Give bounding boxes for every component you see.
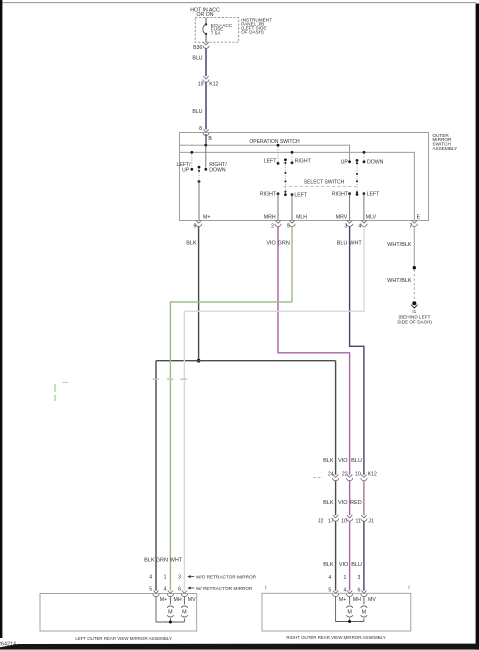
wire BLK to left mirror	[155, 361, 157, 591]
select contact RIGHT to MRH	[277, 192, 280, 195]
svg-text:MLH: MLH	[296, 215, 307, 221]
connector at right mirror MH	[347, 591, 353, 597]
svg-text:6: 6	[194, 224, 197, 230]
connector pin 7 at E	[411, 220, 417, 226]
svg-text:BLK: BLK	[144, 558, 155, 564]
wire VIO K12 to J2	[349, 481, 351, 516]
connector at right mirror MV	[361, 591, 367, 597]
pole vertical group (mechanical link)	[356, 159, 359, 162]
svg-text:2: 2	[271, 224, 274, 230]
bus line 2 (earth) to terminal E	[180, 152, 414, 220]
svg-text:B36: B36	[193, 45, 202, 51]
svg-text:SIDE OF DASH): SIDE OF DASH)	[397, 320, 432, 325]
svg-text:K12: K12	[209, 82, 218, 88]
svg-text:M: M	[168, 610, 173, 616]
svg-text:RIGHT OUTER REAR VIEW MIRROR A: RIGHT OUTER REAR VIEW MIRROR ASSEMBLY	[286, 635, 385, 640]
select contact RIGHT to MRV	[348, 192, 351, 195]
scan artifact green ticks	[153, 378, 187, 380]
svg-text:6: 6	[358, 587, 361, 593]
contact RIGHT/DOWN	[205, 145, 207, 167]
svg-text:19: 19	[198, 82, 204, 88]
wire BLK J2 to right mirror	[335, 521, 337, 590]
pole horizontal group (mechanical link)	[284, 158, 287, 161]
svg-text:RIGHT: RIGHT	[295, 158, 312, 164]
svg-text:E: E	[417, 215, 421, 221]
wire MV to motor left mirror	[183, 597, 185, 622]
page top scan edge line	[3, 2, 477, 4]
svg-text:DOWN: DOWN	[209, 168, 226, 174]
svg-text:M: M	[182, 610, 187, 616]
wire WHT/BLK from E pin 7	[413, 227, 415, 267]
wire BLK from M+ pin 6	[198, 227, 200, 361]
wire MH to motor right mirror	[349, 597, 351, 622]
svg-text:J1: J1	[368, 519, 374, 525]
wire M+ inside right mirror	[336, 597, 364, 622]
svg-text:MRH: MRH	[264, 215, 276, 221]
outer mirror switch assembly box U1	[180, 133, 429, 221]
svg-text:UP: UP	[341, 159, 349, 165]
svg-text:LEFT: LEFT	[294, 192, 308, 198]
connector at switch pin 8 / terminal B	[203, 129, 209, 135]
connector pin 3 at MRV	[347, 220, 353, 226]
wire MH to motor left mirror	[169, 597, 171, 622]
node splice BLK junction	[197, 359, 201, 363]
svg-text:BLU: BLU	[192, 55, 202, 61]
svg-text:VIO: VIO	[338, 500, 348, 506]
contact DOWN (vertical group) on bus 2	[363, 151, 366, 154]
wire GRN from MLH pin 5 to left mirror	[170, 227, 292, 591]
svg-text:5: 5	[149, 587, 152, 593]
svg-text:M: M	[347, 610, 352, 616]
wire BLK to right mirror K12	[335, 361, 337, 475]
wire WHT from MLV pin 4 to left mirror	[184, 227, 364, 591]
svg-text:BLU: BLU	[351, 562, 362, 568]
svg-text:OF DASH): OF DASH)	[241, 29, 264, 34]
wire BLK K12 to J2	[335, 481, 337, 516]
svg-text:1: 1	[164, 575, 167, 581]
svg-text:B: B	[208, 136, 212, 142]
svg-text:10: 10	[341, 519, 347, 525]
svg-text:4: 4	[149, 575, 152, 581]
motor M vertical left mirror	[181, 606, 187, 617]
svg-text:BLU: BLU	[351, 458, 362, 464]
svg-text:BLK: BLK	[323, 500, 334, 506]
node B on bus 1	[204, 144, 207, 147]
connector K12 pin 10	[361, 475, 367, 481]
svg-text:ASSEMBLY: ASSEMBLY	[432, 146, 458, 151]
svg-text:BLU: BLU	[192, 109, 202, 115]
connector at left mirror MV	[181, 591, 187, 597]
connector K12 pin 22	[347, 475, 353, 481]
svg-text:MH: MH	[174, 597, 182, 603]
connector at left mirror M+	[153, 591, 159, 597]
svg-text:17: 17	[328, 519, 334, 525]
svg-text:3: 3	[178, 575, 181, 581]
wire fuse to connector B36	[205, 34, 207, 42]
wire BLK horizontal run	[156, 360, 336, 362]
svg-text:6: 6	[178, 587, 181, 593]
svg-text:3: 3	[358, 575, 361, 581]
pole of M+ operation switch	[198, 166, 201, 169]
svg-text:W/ RETRACTOR MIRROR: W/ RETRACTOR MIRROR	[196, 586, 253, 591]
svg-text:VIO: VIO	[338, 458, 348, 464]
wire BLU B36 to K12	[205, 48, 207, 76]
annotation arrow W/ retractor	[189, 587, 194, 589]
svg-text:10: 10	[355, 472, 361, 478]
node junction left mirror common	[169, 621, 172, 624]
svg-text:4: 4	[164, 587, 167, 593]
page bottom black scan bar	[0, 644, 479, 650]
svg-text:BLK: BLK	[323, 562, 334, 568]
svg-text:M+: M+	[160, 597, 167, 603]
connector at left mirror MH	[167, 591, 173, 597]
svg-text:W/O RETRACTOR MIRROR: W/O RETRACTOR MIRROR	[196, 574, 257, 579]
svg-text:SELECT SWITCH: SELECT SWITCH	[304, 179, 345, 185]
svg-text:5: 5	[287, 224, 290, 230]
svg-text:J2: J2	[318, 519, 324, 525]
svg-text:4: 4	[328, 575, 331, 581]
svg-text:I1: I1	[412, 309, 416, 314]
wire pole to terminal M+	[198, 182, 200, 221]
bus line 1 (battery) to UP contact	[180, 145, 350, 161]
connector pin 6 at M+	[196, 220, 202, 226]
svg-text:24: 24	[328, 472, 334, 478]
svg-text:5: 5	[328, 587, 331, 593]
right outer rear view mirror assembly box	[262, 593, 411, 631]
svg-text:M: M	[362, 610, 367, 616]
connector pin 5 at MLH	[289, 220, 295, 226]
contact LEFT/UP upper	[190, 151, 193, 154]
svg-text:MV: MV	[368, 597, 376, 603]
wire M+ inside left mirror	[156, 597, 184, 622]
svg-text:UP: UP	[182, 168, 190, 174]
connector B36	[203, 42, 209, 48]
scan artifact tick near right box	[265, 585, 267, 589]
connector K12 pin 24	[333, 475, 339, 481]
contact LEFT (horizontal group) on bus 1	[277, 144, 280, 147]
left outer rear view mirror assembly box	[40, 594, 197, 632]
svg-text:RIGHT: RIGHT	[260, 192, 277, 198]
svg-text:7.5A: 7.5A	[211, 31, 222, 36]
svg-text:GRN: GRN	[156, 558, 168, 564]
svg-text:WHT/BLK: WHT/BLK	[387, 278, 412, 284]
wire VIO J to right mirror	[349, 521, 351, 590]
svg-text:LEFT: LEFT	[367, 191, 381, 197]
instrument panel J/B dashed box	[195, 18, 239, 42]
select contact LEFT to MLH	[291, 193, 294, 196]
contact RIGHT (horizontal group) on bus 2	[291, 151, 294, 154]
wire B into bus 1	[205, 134, 207, 145]
motor M horizontal right mirror	[346, 606, 352, 617]
contact UP (vertical group) from bus 1	[348, 160, 351, 163]
node splice on WHT/BLK	[413, 266, 416, 269]
svg-text:BLK: BLK	[323, 458, 334, 464]
page bottom gray scan row	[0, 648, 479, 650]
connector pin 19 K12	[203, 76, 209, 82]
svg-text:OPERATION SWITCH: OPERATION SWITCH	[249, 139, 300, 145]
svg-text:BLK: BLK	[186, 240, 197, 246]
svg-text:MV: MV	[188, 597, 196, 603]
svg-text:8: 8	[199, 126, 202, 132]
node junction right mirror common	[348, 620, 351, 623]
scan artifact green dash left	[62, 382, 68, 384]
svg-text:M+: M+	[339, 597, 346, 603]
wire WHT/BLK dashed to ground	[413, 270, 415, 301]
svg-text:RIGHT: RIGHT	[332, 191, 349, 197]
svg-text:3: 3	[345, 224, 348, 230]
svg-text:VIO: VIO	[266, 240, 276, 246]
connector J pin 10	[347, 515, 353, 521]
wire MV to motor right mirror	[363, 597, 365, 622]
motor M vertical right mirror	[361, 606, 367, 617]
scan artifact green mark left	[54, 384, 56, 401]
svg-text:DOWN: DOWN	[367, 159, 384, 165]
fuse ECU-ACC 7.5A element	[205, 23, 207, 25]
connector J1 pin 11	[361, 515, 367, 521]
svg-text:4: 4	[358, 224, 361, 230]
svg-text:MH: MH	[353, 597, 361, 603]
connector at right mirror M+	[333, 591, 339, 597]
select contact LEFT to MLV	[363, 192, 366, 195]
svg-text:VIO: VIO	[339, 562, 349, 568]
wire BLU K12 to switch pin 8	[205, 82, 207, 129]
connector pin 2 at MRH	[275, 220, 281, 226]
svg-text:LEFT OUTER REAR VIEW MIRROR AS: LEFT OUTER REAR VIEW MIRROR ASSEMBLY	[75, 636, 172, 641]
ground I1 behind left side of dash	[412, 301, 416, 305]
svg-text:WHT: WHT	[170, 558, 183, 564]
connector pin 4 at MLV	[361, 220, 367, 226]
wire into fuse	[205, 18, 207, 25]
svg-text:WHT/BLK: WHT/BLK	[387, 242, 412, 248]
svg-text:K12: K12	[368, 472, 377, 478]
svg-text:WHT: WHT	[349, 240, 362, 246]
page right black scan strip	[476, 4, 479, 650]
svg-text:MRV: MRV	[336, 215, 348, 221]
motor M horizontal left mirror	[167, 606, 173, 617]
connector K12 dashed tie line	[313, 477, 322, 479]
svg-text:264214: 264214	[0, 642, 16, 648]
svg-text:M+: M+	[203, 215, 210, 221]
svg-text:4: 4	[344, 587, 347, 593]
annotation arrow W/O retractor	[189, 576, 194, 578]
wire RED K12 to J1	[363, 481, 365, 516]
wire BLU J1 to right mirror	[363, 521, 365, 590]
scan artifact tick near right box right	[408, 585, 410, 589]
svg-text:7: 7	[409, 224, 412, 230]
svg-text:GRN: GRN	[278, 240, 290, 246]
select switch dashed boundary	[284, 185, 357, 187]
svg-text:OR ON: OR ON	[196, 12, 213, 18]
svg-text:11: 11	[356, 519, 361, 525]
svg-text:LEFT: LEFT	[264, 158, 278, 164]
svg-text:1: 1	[344, 575, 347, 581]
svg-text:BLU: BLU	[337, 240, 348, 246]
svg-text:RED: RED	[350, 500, 362, 506]
connector J2 pin 17	[333, 515, 339, 521]
page left black scan strip	[0, 0, 2, 638]
svg-text:22: 22	[342, 472, 348, 478]
wire BLU from MRV pin 3	[350, 227, 364, 475]
wire VIO from MRH pin 2	[278, 227, 350, 475]
svg-text:MLV: MLV	[366, 215, 377, 221]
